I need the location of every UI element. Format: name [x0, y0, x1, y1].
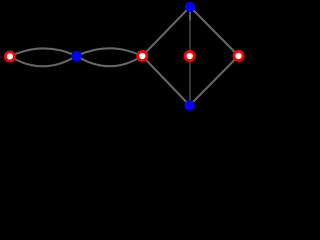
wire: edge v4-v7 (diamond upper-right side): [190, 7, 239, 56]
wire: edge v3-v4 (diamond upper-left side): [142, 7, 190, 56]
node v5 (blue, diamond bottom vertex): [185, 100, 195, 110]
wire: edge v6-v5 (vertical lower): [189, 56, 191, 105]
wire: upper arc edge v2-v3: [77, 48, 143, 56]
wire: edge v5-v7 (diamond lower-right side): [190, 56, 239, 106]
node v6 (red ring, diamond center): [185, 51, 194, 60]
node v4 (blue, diamond top vertex): [185, 2, 195, 12]
node v2 (blue, filled): [71, 51, 81, 61]
wire: edge v3-v5 (diamond lower-left side): [142, 56, 189, 105]
wire: lower arc edge v1-v2: [10, 56, 77, 66]
wire: upper arc edge v1-v2: [10, 48, 77, 56]
node v7 (red ring, diamond right vertex): [234, 51, 243, 60]
node v3 (red ring, diamond left vertex): [138, 51, 147, 60]
wire: edge v4-v6 (vertical upper): [189, 7, 191, 56]
node v1 (red ring, far left): [5, 52, 14, 61]
wire: lower arc edge v2-v3: [77, 56, 143, 66]
